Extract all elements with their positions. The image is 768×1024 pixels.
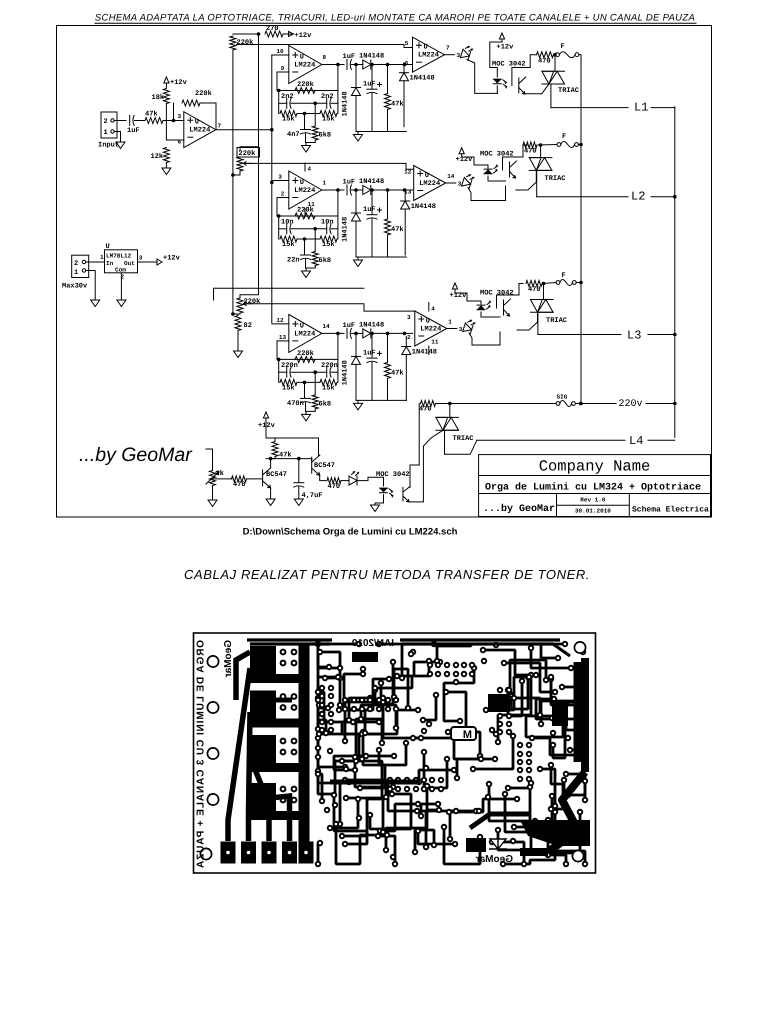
capacitor 22n: [301, 254, 311, 256]
svg-text:Rev 1.0: Rev 1.0: [580, 497, 606, 504]
svg-text:3: 3: [178, 113, 182, 120]
potentiometer 1k pause: [210, 471, 216, 486]
wire fuse to bus ch2: [578, 144, 581, 146]
wire filter output: [322, 64, 344, 66]
wire bottom join: [306, 403, 316, 412]
+12v arrow ch2 MOC: [459, 148, 464, 154]
fuse F ch2: [557, 143, 561, 147]
wire Q2 collector: [319, 438, 320, 455]
node signal bus tap ch1: [270, 128, 274, 132]
wire cap left lead: [279, 228, 287, 230]
wire cap to diode: [351, 189, 362, 191]
node mains ch1: [553, 53, 557, 57]
node chain c: [386, 332, 390, 336]
wire 470 to fuse ch3: [542, 283, 556, 284]
svg-text:M: M: [463, 729, 472, 741]
PCB connector pads bottom: [221, 842, 236, 864]
svg-text:1uF: 1uF: [363, 81, 376, 89]
PCB DIP footprints: [342, 697, 348, 703]
node chain b: [370, 332, 374, 336]
resistor 47k input: [145, 118, 163, 124]
svg-text:6: 6: [405, 60, 409, 67]
svg-text:47k: 47k: [145, 110, 158, 119]
triac ch3: [543, 284, 545, 300]
wire base rail pause: [266, 458, 312, 460]
node 220v tap: [448, 402, 452, 406]
svg-text:U: U: [424, 44, 428, 52]
svg-text:+12v: +12v: [497, 44, 515, 52]
wire to vert diode: [355, 65, 357, 88]
node chain d: [403, 188, 407, 192]
wire top bias rail: [233, 33, 259, 35]
diode 1N4148 series: [363, 60, 371, 69]
svg-text:1uF: 1uF: [343, 179, 356, 187]
wire pot ch3 to divider node: [233, 313, 240, 314]
wire bottom rail: [356, 399, 406, 401]
svg-text:220n: 220n: [321, 362, 338, 370]
capacitor 4n7: [301, 129, 311, 131]
wire caps middle: [291, 228, 327, 230]
optocoupler MOC3042 phototriac ch2: [509, 162, 511, 177]
wire MOC led ch3 out: [481, 312, 500, 317]
op-amp filter stage: [289, 171, 322, 209]
wire MOC output to 470: [512, 55, 536, 86]
wire shunt diode down: [405, 355, 407, 401]
wire L3 to rail: [648, 334, 675, 336]
optocoupler MOC3042 phototriac ch3: [503, 300, 505, 315]
svg-text:3: 3: [139, 255, 143, 262]
wire J1 pin2 to C1: [114, 120, 126, 122]
svg-text:CABLAJ REALIZAT PENTRU METODA: CABLAJ REALIZAT PENTRU METODA TRANSFER D…: [184, 567, 590, 582]
PCB black patch islands: [352, 652, 568, 852]
wire cap to rail: [371, 363, 373, 401]
optocoupler MOC3042 led pause: [380, 488, 388, 492]
wire caps mid to 6k8: [314, 372, 316, 395]
node caps mid: [313, 102, 317, 106]
wire pin 2: [277, 197, 289, 199]
svg-text:TRIAC: TRIAC: [558, 87, 579, 95]
resistor 15k left: [280, 379, 297, 385]
wire U1A output to signal bus: [216, 129, 272, 131]
wire cap to diode: [351, 332, 362, 334]
wire triac pause MT1 to L4: [443, 430, 477, 454]
svg-text:220k: 220k: [297, 349, 314, 358]
svg-text:4: 4: [308, 166, 312, 173]
resistor 15k left: [280, 236, 297, 242]
+12v terminal regulator: [157, 259, 162, 265]
wire +12v to MOC led ch3: [455, 289, 481, 304]
wire MOC led cathode: [496, 86, 498, 94]
svg-text:2n2: 2n2: [281, 93, 294, 101]
svg-text:13: 13: [279, 334, 287, 341]
node bus ch2: [579, 143, 583, 147]
ground chain: [354, 135, 363, 142]
line 220v: [450, 403, 556, 405]
wire 47k to rail: [387, 378, 389, 400]
wire bottom rail: [356, 256, 406, 258]
svg-text:GeoMar: GeoMar: [476, 854, 513, 865]
svg-text:1N4148: 1N4148: [342, 217, 350, 242]
svg-text:In: In: [106, 260, 114, 267]
node in+ junction: [172, 119, 176, 123]
svg-text:F: F: [562, 272, 566, 280]
capacitor 2n2 right: [326, 98, 328, 108]
ground at J1: [116, 142, 125, 149]
wire triac MT1 to L1: [549, 84, 551, 108]
svg-text:TRIAC: TRIAC: [546, 317, 567, 325]
svg-text:...by GeoMar: ...by GeoMar: [483, 503, 555, 515]
wire 470 to LED pause: [341, 480, 349, 482]
svg-text:470: 470: [538, 58, 551, 66]
wire to filter ground: [305, 268, 307, 271]
svg-text:4n7: 4n7: [287, 131, 300, 139]
capacitor C1 1uF: [129, 116, 131, 126]
wire filter output: [322, 332, 344, 334]
svg-text:2: 2: [281, 191, 285, 198]
wire between 15k: [297, 113, 320, 115]
triac pause: [418, 404, 420, 466]
node signal tap ch2: [270, 181, 274, 185]
fuse SIG: [556, 402, 560, 406]
svg-text:12: 12: [276, 317, 284, 324]
svg-text:L2: L2: [631, 190, 645, 204]
svg-text:47k: 47k: [391, 225, 404, 234]
node rail L2: [673, 195, 677, 199]
node 15k mid: [303, 237, 307, 241]
svg-text:2: 2: [74, 260, 78, 268]
wire to filter ground: [305, 411, 307, 414]
node bus ch3: [579, 281, 583, 285]
resistor 220k feedback: [295, 356, 315, 362]
node chain d: [403, 332, 407, 336]
wire +12v to 18k: [165, 83, 167, 88]
wire Q1 collector: [270, 459, 272, 468]
svg-text:SCHEMA ADAPTATA LA OPTOTRIACE,: SCHEMA ADAPTATA LA OPTOTRIACE, TRIACURI,…: [95, 13, 695, 24]
svg-text:Company Name: Company Name: [539, 458, 651, 476]
PCB sigma box: [451, 727, 476, 740]
wire feedback rail: [277, 341, 338, 360]
svg-text:18k: 18k: [152, 93, 165, 102]
node chain b: [370, 188, 374, 192]
wire L1 to rail: [651, 107, 675, 109]
+12v arrow ch3 MOC: [452, 283, 457, 289]
svg-text:470: 470: [419, 406, 432, 414]
svg-text:4,7uF: 4,7uF: [302, 492, 323, 500]
wire to shunt diode: [404, 191, 406, 201]
svg-text:220v: 220v: [619, 399, 643, 410]
wire line L3: [538, 334, 621, 336]
PCB trace maze: [379, 644, 402, 678]
wire to shunt diode: [403, 63, 405, 73]
wire cap to diode: [351, 64, 362, 66]
node chain d: [403, 63, 407, 67]
svg-text:+12v: +12v: [163, 255, 181, 263]
svg-text:BC547: BC547: [266, 471, 287, 479]
channel 1 driver: wire LED to MOC: [467, 60, 497, 94]
PCB thick top trace: [247, 640, 570, 656]
wire MOC output ch2: [503, 145, 529, 170]
svg-text:6: 6: [178, 139, 182, 146]
node filter output: [336, 63, 340, 67]
svg-text:1N4148: 1N4148: [410, 75, 435, 83]
node 15k mid: [303, 112, 307, 116]
wire pot wiper to 470: [213, 478, 233, 480]
LED indicator: [463, 319, 476, 335]
wire bottom rail: [356, 131, 406, 133]
wire fuse to bus ch3: [576, 282, 581, 284]
capacitor 1uF coupling: [346, 185, 348, 195]
ground Q1: [266, 499, 275, 506]
node pot ch2 bottom: [231, 173, 235, 177]
wire Q2 base: [311, 459, 313, 463]
resistor 470 pause a: [232, 476, 247, 482]
wire J1 pin1 down: [114, 132, 120, 143]
wire shunt diode down: [403, 81, 405, 127]
op-amp U1A input stage: [184, 112, 216, 148]
resistor 470 mains pause: [421, 401, 436, 407]
fuse F ch3: [556, 281, 560, 285]
svg-text:10n: 10n: [281, 219, 294, 227]
ground MOC pause: [371, 505, 380, 512]
resistor 220k feedback: [295, 88, 315, 94]
optocoupler MOC3042 led ch1: [493, 79, 501, 83]
wire feedback to output: [200, 103, 216, 130]
wire fuse to bus: [579, 54, 581, 56]
node rail 220v: [673, 402, 677, 406]
wire pot to ground: [212, 486, 214, 501]
node divider bottom: [231, 312, 235, 316]
resistor 15k left: [280, 111, 297, 117]
svg-text:1: 1: [323, 180, 327, 187]
wire triac gate ch1: [525, 84, 549, 94]
diode 1N4148 series: [363, 186, 371, 195]
+12v arrow ch1 MOC: [499, 33, 504, 39]
svg-text:8: 8: [323, 54, 327, 61]
wire R47k to U1A in+: [163, 120, 184, 122]
node fb left: [277, 214, 281, 218]
svg-text:10: 10: [276, 48, 284, 55]
PCB thick right trace: [520, 658, 585, 852]
resistor 470 ch2: [523, 142, 537, 148]
resistor 15k right: [320, 379, 337, 385]
node filter output: [336, 188, 340, 192]
transistor Q1 BC547: [262, 470, 264, 486]
svg-text:7: 7: [446, 45, 450, 52]
svg-text:6k8: 6k8: [319, 256, 332, 265]
svg-text:470: 470: [524, 148, 537, 156]
svg-text:6k8: 6k8: [319, 131, 332, 140]
diode 1N4148 shunt: [352, 356, 361, 364]
svg-text:LM224: LM224: [294, 62, 315, 70]
node bus 220v: [579, 402, 583, 406]
wire to vert cap: [371, 333, 373, 357]
potentiometer 220k ch2 threshold: [240, 147, 259, 150]
wire ch1 threshold to comparator: [237, 45, 413, 48]
+12v arrow above 18k: [164, 77, 169, 83]
wire cap to rail: [371, 219, 373, 257]
svg-text:12k: 12k: [151, 152, 164, 161]
op-amp filter stage: [289, 314, 322, 352]
wire output down to 15k: [337, 333, 339, 382]
wire to filter ground: [305, 143, 307, 146]
op-amp filter stage: [289, 46, 322, 84]
svg-text:Max30v: Max30v: [62, 283, 88, 291]
svg-text:15k: 15k: [322, 240, 335, 249]
wire divider to 82: [233, 314, 238, 316]
LED indicator: [460, 45, 473, 61]
svg-text:1N4148: 1N4148: [411, 203, 436, 211]
wire +12v to MOC led ch2: [462, 154, 488, 168]
wire line L4: [477, 439, 625, 441]
wire to triac pause: [449, 404, 451, 418]
svg-text:9: 9: [281, 65, 285, 72]
svg-text:470n: 470n: [287, 400, 304, 408]
wire regulator out: [138, 261, 157, 263]
resistor 6k8: [312, 126, 318, 140]
svg-text:2: 2: [104, 118, 108, 126]
PCB driver pads column: [250, 646, 276, 683]
capacitor 1uF filter: [367, 88, 377, 90]
wire 47k to node: [271, 457, 275, 459]
wire line L2: [537, 196, 628, 198]
svg-text:2: 2: [407, 334, 411, 341]
svg-text:220k: 220k: [297, 80, 314, 89]
LED indicator: [462, 173, 475, 189]
wire cap right lead: [331, 228, 338, 230]
resistor 47k: [385, 94, 391, 110]
PCB mid thick traces: [262, 700, 530, 828]
wire to series cap: [304, 239, 306, 255]
+12v arrow pause: [263, 412, 268, 418]
diode 1N4148 comparator: [401, 201, 410, 209]
ground filter: [302, 146, 311, 153]
svg-text:LM224: LM224: [419, 180, 440, 188]
wire to 47k pause: [274, 438, 276, 441]
bus divider left: [232, 50, 234, 314]
wire triac gate ch3: [517, 312, 538, 330]
svg-text:Com: Com: [115, 267, 126, 274]
wire pin 12: [272, 323, 289, 325]
capacitor 4,7uF: [294, 482, 304, 484]
capacitor 220n right: [326, 367, 328, 377]
svg-text:470: 470: [233, 481, 246, 489]
triac ch2: [540, 145, 542, 158]
wire caps middle: [291, 102, 327, 104]
wire MOC output ch3: [497, 284, 524, 309]
wire pin 13: [277, 340, 289, 342]
connector J2 Max30v: [72, 255, 89, 277]
node chain a: [354, 332, 358, 336]
svg-text:47k: 47k: [391, 368, 404, 377]
node bus end: [579, 402, 583, 406]
wire diode to rail: [355, 364, 357, 400]
wire pin 3: [272, 180, 289, 182]
svg-text:U: U: [300, 179, 304, 187]
svg-text:220n: 220n: [281, 362, 298, 370]
svg-text:6k8: 6k8: [319, 399, 332, 408]
optocoupler MOC3042 led ch2: [484, 169, 492, 173]
svg-text:470: 470: [528, 286, 541, 294]
wire 47k to rail: [387, 235, 389, 257]
wire to series cap: [304, 114, 306, 130]
wire ch3 threshold to comparator: [244, 304, 415, 311]
svg-text:ORGA DE LUMINI CU 3 CANALE + P: ORGA DE LUMINI CU 3 CANALE + PAUZA: [196, 640, 207, 868]
svg-text:1N4148: 1N4148: [342, 360, 350, 385]
svg-text:IAN/2010: IAN/2010: [351, 638, 394, 649]
wire 470 to Q1 base: [247, 478, 263, 480]
svg-text:L1: L1: [634, 101, 648, 115]
wire C1 to R47k: [135, 120, 146, 122]
bus divider right: [258, 34, 260, 147]
wire node to cap pause: [298, 459, 300, 483]
wire to series cap: [304, 382, 306, 398]
ground regulator: [117, 300, 126, 307]
svg-text:Schema Electrica: Schema Electrica: [632, 506, 709, 515]
wire MOC pause out up: [410, 465, 419, 487]
wire comparator output: [447, 328, 457, 330]
svg-text:11: 11: [431, 339, 439, 346]
wire caps mid to 6k8: [314, 229, 316, 252]
svg-text:3: 3: [278, 174, 282, 181]
svg-text:1N4148: 1N4148: [359, 53, 384, 61]
capacitor 1uF filter: [367, 214, 377, 216]
wire filter output: [322, 189, 344, 191]
wire bottom join: [306, 259, 316, 268]
svg-text:1k: 1k: [216, 469, 224, 478]
svg-text:F: F: [562, 133, 566, 141]
wire triac MT1 to L2: [535, 170, 537, 196]
wire feedback rail: [277, 198, 338, 217]
svg-text:MOC 3042: MOC 3042: [376, 471, 410, 479]
op-amp comparator: [414, 166, 446, 201]
node chain c: [386, 188, 390, 192]
svg-text:U: U: [426, 318, 430, 326]
resistor 270: [265, 31, 283, 37]
svg-text:1uF: 1uF: [363, 206, 376, 214]
wire cap to ground: [298, 487, 300, 499]
svg-text:1: 1: [448, 319, 452, 326]
resistor 6k8: [312, 395, 318, 409]
wire shunt diode down: [404, 209, 406, 255]
wire cap left lead: [279, 102, 287, 104]
wire divider to U1A in-: [166, 104, 183, 141]
svg-text:220k: 220k: [237, 38, 254, 47]
wire pin 10: [272, 54, 289, 56]
node caps mid: [313, 370, 317, 374]
potentiometer 220k ch3 threshold: [240, 147, 259, 298]
svg-text:270: 270: [266, 25, 279, 33]
svg-text:12: 12: [404, 169, 412, 176]
svg-text:L3: L3: [627, 329, 641, 343]
resistor 82: [235, 316, 241, 331]
svg-text:U: U: [300, 322, 304, 330]
svg-text:1: 1: [100, 254, 104, 261]
svg-text:47k: 47k: [391, 100, 404, 109]
PCB board outline: [194, 633, 596, 873]
resistor 18k: [163, 89, 169, 104]
wire 82 to ground: [237, 331, 239, 352]
capacitor 2n2 left: [286, 98, 288, 108]
svg-text:BC547: BC547: [314, 462, 335, 470]
svg-text:+12v: +12v: [170, 79, 188, 87]
diode 1N4148 series: [363, 329, 371, 338]
svg-text:15k: 15k: [322, 115, 335, 124]
wire Q2 emitter: [320, 475, 327, 480]
svg-text:TRIAC: TRIAC: [453, 435, 474, 443]
PCB thick bottom right blob: [520, 820, 590, 846]
ground below 12k: [162, 168, 171, 175]
svg-text:U: U: [106, 243, 110, 251]
